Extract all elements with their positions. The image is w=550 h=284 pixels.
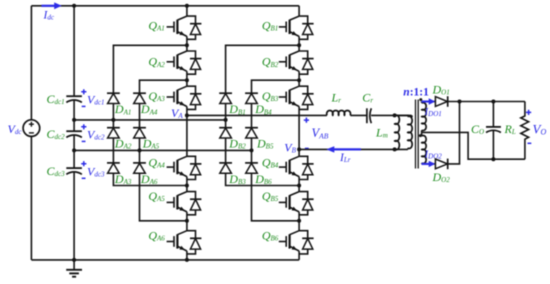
inductor Lm — [395, 115, 400, 150]
transformer secondary polarity dot bottom — [419, 134, 422, 137]
svg-text:Cr: Cr — [362, 90, 373, 104]
wire VB to transformer — [299, 148, 408, 150]
voltage source Vdc — [23, 120, 40, 137]
svg-text:VAB: VAB — [312, 126, 329, 140]
diode DA3 — [107, 162, 120, 164]
svg-text:QA1: QA1 — [148, 18, 164, 32]
svg-text:Cdc2: Cdc2 — [47, 127, 66, 141]
transformer secondary polarity dot top — [419, 98, 422, 101]
svg-text:DA2: DA2 — [114, 137, 132, 151]
svg-text:Idc: Idc — [43, 10, 55, 22]
svg-text:DB1: DB1 — [228, 102, 245, 116]
svg-text:QB2: QB2 — [262, 55, 279, 69]
diode DB1 — [219, 92, 232, 94]
svg-text:QA5: QA5 — [148, 189, 165, 203]
capacitor Cr — [366, 108, 368, 123]
wire VA to tank — [187, 114, 412, 116]
transistor QB3 — [298, 80, 300, 86]
transistor QB6 — [298, 221, 300, 231]
transistor QA2 — [186, 45, 188, 51]
wire bottom rail — [31, 259, 299, 261]
svg-text:DB5: DB5 — [256, 137, 274, 151]
junction dots leg B — [297, 43, 301, 47]
svg-text:DA5: DA5 — [142, 137, 160, 151]
capacitor Cdc3 — [66, 167, 82, 169]
wire dc tap1 — [74, 119, 226, 121]
diode DA1 — [107, 92, 120, 94]
svg-text:QB3: QB3 — [262, 89, 279, 103]
svg-text:QA2: QA2 — [148, 55, 165, 69]
transistor QB2 — [298, 45, 300, 51]
svg-text:DO2: DO2 — [432, 170, 451, 184]
junction dots leg A — [185, 43, 189, 47]
svg-text:n:1:1: n:1:1 — [403, 87, 429, 99]
transistor QA5 — [186, 186, 188, 192]
diode DB4 — [245, 92, 258, 94]
transformer secondary top winding — [421, 102, 423, 103]
svg-text:QA6: QA6 — [148, 228, 165, 242]
svg-text:VA: VA — [171, 106, 183, 120]
diode DB6 — [245, 162, 258, 164]
label VAB polarity minus — [305, 147, 309, 149]
capacitor Co — [492, 102, 494, 160]
resistor RL — [521, 102, 529, 160]
transformer primary winding — [395, 115, 408, 116]
svg-text:DO1: DO1 — [432, 83, 450, 97]
wire clamp column B2 — [252, 80, 300, 221]
diode DA5 — [133, 127, 146, 129]
label VAB polarity plus — [304, 118, 309, 123]
svg-text:Cdc1: Cdc1 — [47, 92, 65, 106]
transformer primary polarity dot — [410, 115, 413, 118]
svg-text:IDO1: IDO1 — [424, 106, 442, 118]
wire output top rail — [448, 101, 525, 103]
transistor QA1 — [186, 6, 188, 16]
wire secondary top to DO1 — [422, 101, 436, 103]
diode DB5 — [245, 127, 258, 129]
svg-text:DB3: DB3 — [228, 172, 246, 186]
ground — [73, 260, 75, 270]
svg-text:DB6: DB6 — [254, 172, 272, 186]
current arrow Idc — [42, 5, 55, 7]
wire dc tap2 — [74, 149, 251, 151]
diode DO1 — [435, 97, 447, 107]
transistor QA4 — [186, 115, 188, 156]
wire capacitor bus — [73, 6, 75, 260]
diode DA6 — [133, 162, 146, 164]
svg-text:DB2: DB2 — [228, 137, 246, 151]
svg-text:Vdc3: Vdc3 — [87, 164, 105, 178]
svg-text:QA3: QA3 — [148, 89, 165, 103]
wire DO2 to output rail — [448, 102, 460, 164]
capacitor Cdc1 — [66, 95, 82, 97]
label Vdc3 with polarity — [81, 161, 86, 166]
svg-text:VB: VB — [284, 140, 296, 154]
svg-text:Lr: Lr — [331, 90, 342, 104]
svg-text:IDO2: IDO2 — [424, 149, 443, 161]
svg-text:QB6: QB6 — [262, 228, 279, 242]
diode DB2 — [219, 127, 232, 129]
svg-text:RL: RL — [504, 122, 516, 136]
capacitor Cdc2 — [66, 130, 82, 132]
label Vdc2 with polarity — [81, 124, 86, 129]
current arrow ILr — [334, 148, 361, 150]
inductor Lr — [327, 111, 351, 116]
svg-text:DA1: DA1 — [114, 102, 131, 116]
svg-text:Vdc1: Vdc1 — [87, 93, 104, 107]
transformer core — [415, 100, 417, 169]
transistor QA6 — [186, 221, 188, 231]
transformer secondary bottom winding — [421, 132, 423, 135]
node VA — [185, 113, 189, 117]
label VO with polarity — [526, 110, 531, 115]
transistor QB5 — [298, 186, 300, 192]
node VB — [297, 147, 301, 151]
svg-text:DB4: DB4 — [254, 102, 272, 116]
svg-text:QB5: QB5 — [262, 189, 279, 203]
diode DA2 — [107, 127, 120, 129]
diode DA4 — [133, 92, 146, 94]
svg-text:DA3: DA3 — [114, 172, 132, 186]
svg-text:QA4: QA4 — [148, 155, 165, 169]
wire clamp column A1 — [113, 45, 186, 185]
current arrow IDO2 — [422, 163, 430, 165]
wire top rail — [31, 5, 299, 7]
svg-text:QB4: QB4 — [262, 155, 279, 169]
wire clamp column A2 — [140, 80, 187, 221]
wire left bus — [30, 6, 32, 260]
svg-text:QB1: QB1 — [262, 18, 278, 32]
transistor QB1 — [298, 6, 300, 16]
current arrow IDO1 — [422, 100, 430, 102]
svg-text:ILr: ILr — [339, 152, 351, 164]
diode DO2 — [435, 159, 447, 169]
svg-text:Vdc2: Vdc2 — [87, 128, 105, 142]
wire leg B midsection — [298, 115, 300, 149]
diode DB3 — [219, 162, 232, 164]
transistor QB4 — [298, 149, 300, 156]
label Vdc1 with polarity — [81, 89, 86, 94]
transistor QA3 — [186, 80, 188, 86]
svg-text:VO: VO — [533, 121, 547, 136]
svg-text:CO: CO — [471, 122, 484, 136]
wire secondary bottom to DO2 — [422, 163, 436, 165]
svg-text:Vdc: Vdc — [8, 122, 23, 136]
svg-text:DA6: DA6 — [140, 172, 158, 186]
svg-text:Cdc3: Cdc3 — [47, 164, 66, 178]
wire center tap to output return — [422, 132, 525, 159]
svg-text:DA4: DA4 — [140, 102, 158, 116]
wire clamp column B1 — [226, 45, 300, 185]
svg-text:Lm: Lm — [375, 126, 388, 140]
